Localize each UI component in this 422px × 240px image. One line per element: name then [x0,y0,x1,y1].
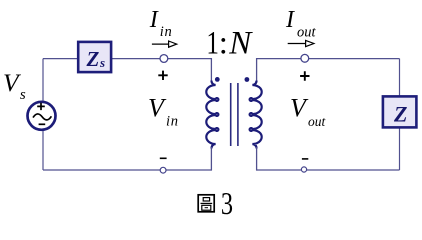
svg-text:1: 1 [206,25,219,61]
inductor secondary winding [250,81,262,149]
caption character tu (figure) [198,195,214,212]
wire top-left horizontal (source to transformer primary) [43,58,211,60]
node terminal bottom-right (circle) [301,167,306,172]
svg-text:Z: Z [86,47,100,71]
plus sign Vin [158,71,167,80]
impedance Zs box [78,42,111,72]
minus sign bottom-left node [160,157,167,159]
label 1:N turns ratio [206,25,253,61]
label Vin [148,93,179,129]
wire right vertical above load [399,59,401,97]
label Vout [290,93,327,129]
svg-text:out: out [308,114,327,129]
voltage source plus sign [37,103,45,110]
wire left vertical source bottom [42,129,44,170]
voltage source minus sign [39,123,46,125]
inductor primary winding [206,81,218,149]
svg-text::: : [219,26,228,62]
wire left vertical source top [42,59,44,103]
load impedance Z box [383,96,417,127]
transformer core line right [237,83,239,146]
transformer core line left [230,83,232,146]
label Vs [3,68,26,103]
node terminal top-right (circle) [301,54,309,62]
voltage source sine wave [33,114,51,120]
svg-text:3: 3 [221,187,233,222]
svg-text:I: I [285,7,295,33]
plus sign Vout [300,71,309,80]
node terminal top-left (circle) [160,55,168,63]
voltage source Vs circle [28,102,56,130]
arrow Iout [288,40,314,46]
wire transformer primary top lead [210,58,212,82]
wire right vertical below load [399,127,401,170]
svg-text:I: I [149,7,159,33]
polarity dot primary [215,77,220,82]
wire transformer primary bottom lead [210,147,212,171]
svg-text:N: N [228,26,253,62]
arrow Iin [152,41,177,47]
label Iin [149,7,173,40]
svg-text:out: out [297,25,317,41]
svg-text:Z: Z [393,101,407,126]
wire bottom-left horizontal [43,169,211,171]
wire transformer secondary bottom lead [256,147,258,171]
polarity dot secondary [245,77,250,82]
svg-text:s: s [20,87,26,103]
wire bottom-right horizontal [257,169,400,171]
label Iout [285,7,317,41]
svg-text:in: in [166,114,179,130]
caption number 3 [221,187,233,222]
node terminal bottom-left (circle) [160,167,166,173]
wire top-right horizontal (secondary to load) [257,58,400,60]
label Zs [86,47,106,71]
wire transformer secondary top lead [256,58,258,82]
svg-text:in: in [160,24,173,40]
svg-text:s: s [99,55,105,70]
minus sign bottom-right node [302,158,308,160]
